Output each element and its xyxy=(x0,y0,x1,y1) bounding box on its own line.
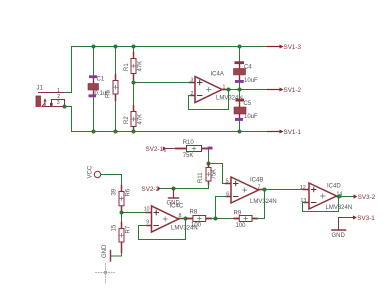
net flag SV1-3 xyxy=(268,44,302,51)
svg-text:R7: R7 xyxy=(125,225,131,233)
resistor R11 xyxy=(198,164,217,185)
origin cross marker xyxy=(96,264,116,284)
ground GND1 xyxy=(102,244,111,261)
net flag SV1-2 xyxy=(268,87,302,94)
op-amp IC4C xyxy=(144,204,198,232)
svg-text:SV2-1: SV2-1 xyxy=(146,146,164,153)
svg-text:R5: R5 xyxy=(106,90,112,98)
wire top rail xyxy=(72,47,268,93)
wire bottom rail xyxy=(65,107,268,132)
capacitor C5 xyxy=(234,99,258,121)
svg-text:6: 6 xyxy=(226,191,229,197)
node bottom rail junctions xyxy=(92,130,96,134)
node IC4A output junction xyxy=(227,88,231,92)
wire R10 down to R11 xyxy=(208,150,210,164)
wire IC4D feedback xyxy=(303,197,339,212)
node J1 pin3 junction xyxy=(63,105,67,109)
wire IC4C out to R8 xyxy=(184,218,193,220)
svg-text:SV2-2: SV2-2 xyxy=(142,186,160,193)
svg-text:12: 12 xyxy=(300,185,306,191)
node IC4D output junction xyxy=(337,195,341,199)
svg-text:75K: 75K xyxy=(183,153,194,159)
svg-text:3: 3 xyxy=(191,77,194,83)
svg-text:SV3-2: SV3-2 xyxy=(358,194,376,201)
svg-text:R1: R1 xyxy=(124,63,130,71)
svg-text:100: 100 xyxy=(236,223,247,229)
resistor R7 xyxy=(111,213,131,253)
node R6-R7 junction xyxy=(120,211,124,215)
resistor R8 xyxy=(187,210,212,229)
net flag SV1-1 xyxy=(268,129,302,136)
svg-text:7: 7 xyxy=(258,185,261,191)
resistor R10 xyxy=(176,140,208,159)
wire purple segment xyxy=(208,147,213,150)
svg-text:8: 8 xyxy=(179,213,182,219)
net flag SV2-2 xyxy=(142,186,162,193)
svg-text:C1: C1 xyxy=(97,76,105,82)
node R1-R2 junction xyxy=(132,81,136,85)
node R10-R11 junction xyxy=(207,162,211,166)
wire IC4A feedback xyxy=(189,90,229,110)
svg-text:R9: R9 xyxy=(234,210,242,216)
wire J1 pin1 to rail xyxy=(63,92,72,94)
svg-text:9: 9 xyxy=(146,219,149,225)
svg-text:2: 2 xyxy=(57,94,60,100)
op-amp IC4A xyxy=(190,72,243,103)
svg-text:GND: GND xyxy=(332,233,346,239)
svg-text:IC4A: IC4A xyxy=(211,72,224,78)
svg-text:C5: C5 xyxy=(244,101,252,107)
wire node A to IC4B pin6 xyxy=(216,197,227,219)
svg-text:C4: C4 xyxy=(244,64,252,70)
svg-text:IC4B: IC4B xyxy=(250,178,263,184)
wire IC4D out xyxy=(342,196,355,198)
wire VCC to R6 xyxy=(101,175,122,186)
node A junction xyxy=(214,217,218,221)
svg-text:R8: R8 xyxy=(190,210,198,216)
svg-text:10uF: 10uF xyxy=(244,114,258,120)
svg-text:5: 5 xyxy=(226,178,229,184)
node IC4C output junction xyxy=(184,217,188,221)
svg-text:10uF: 10uF xyxy=(244,78,258,84)
wire R8 to node A xyxy=(212,218,216,220)
wire R9 up to IC4B out xyxy=(257,190,265,219)
connector J1 xyxy=(36,85,65,106)
svg-text:1: 1 xyxy=(223,84,226,90)
svg-text:SV1-2: SV1-2 xyxy=(284,87,302,94)
svg-text:10: 10 xyxy=(144,207,150,213)
capacitor C4 xyxy=(234,61,259,84)
op-amp IC4B xyxy=(226,177,277,205)
wire junction to IC4B pin5 xyxy=(209,164,226,184)
resistor R6 xyxy=(111,186,131,213)
wire divider to opamp xyxy=(134,82,190,84)
ground GND2 xyxy=(167,189,181,207)
net flag SV3-1 xyxy=(353,215,375,222)
svg-text:IC4C: IC4C xyxy=(170,204,184,210)
svg-text:13: 13 xyxy=(301,198,307,204)
wire IC4C feedback xyxy=(139,219,186,240)
wire R7 to gnd xyxy=(112,253,122,257)
svg-text:SV1-1: SV1-1 xyxy=(284,129,302,136)
wire flag to R10 xyxy=(167,148,177,150)
net flag SV3-2 xyxy=(354,194,376,201)
wire C1 column xyxy=(93,47,95,76)
svg-text:IC4D: IC4D xyxy=(327,184,341,190)
wire IC4A output xyxy=(227,89,268,91)
wire C5 column xyxy=(239,90,241,99)
capacitor C1 xyxy=(88,75,110,97)
wire C4 column xyxy=(239,47,241,62)
svg-text:47K: 47K xyxy=(138,61,144,72)
node output junction C4C5 xyxy=(238,88,242,92)
wire R5 column xyxy=(115,47,117,75)
op-amp IC4D xyxy=(300,183,352,211)
svg-text:75K: 75K xyxy=(212,169,218,180)
svg-text:R2: R2 xyxy=(124,116,130,124)
svg-text:LMV324N: LMV324N xyxy=(250,199,277,205)
wire R11 to SV2-2 row xyxy=(161,185,209,189)
svg-text:R11: R11 xyxy=(198,172,204,183)
node top rail junctions xyxy=(92,45,96,49)
svg-text:3: 3 xyxy=(57,100,60,106)
wire node A to R9 xyxy=(216,218,240,220)
svg-text:47K: 47K xyxy=(138,114,144,125)
resistor R1 xyxy=(124,53,144,80)
wire IC4B out to IC4D xyxy=(264,189,304,191)
node SV2-2 gnd junction xyxy=(172,187,176,191)
resistor R9 xyxy=(234,210,258,229)
wire junction to IC4C xyxy=(122,212,147,214)
svg-text:SV1-3: SV1-3 xyxy=(284,44,302,51)
wire SV3-1 to gnd xyxy=(339,218,354,230)
supply VCC xyxy=(88,165,101,178)
ground GND3 xyxy=(332,230,346,239)
resistor R5 xyxy=(106,75,119,101)
net flag SV2-1 xyxy=(146,146,167,153)
resistor R2 xyxy=(124,106,144,132)
svg-text:GND: GND xyxy=(102,244,108,258)
svg-text:SV3-1: SV3-1 xyxy=(357,215,375,222)
node IC4B output junction xyxy=(263,188,267,192)
svg-text:VCC: VCC xyxy=(88,165,94,178)
svg-text:R10: R10 xyxy=(183,140,195,146)
wire R1 R2 column xyxy=(133,47,135,53)
svg-text:R6: R6 xyxy=(125,188,131,196)
svg-text:39: 39 xyxy=(111,188,117,195)
svg-text:J1: J1 xyxy=(37,85,44,91)
svg-text:15: 15 xyxy=(111,224,117,231)
svg-text:100: 100 xyxy=(191,222,202,228)
